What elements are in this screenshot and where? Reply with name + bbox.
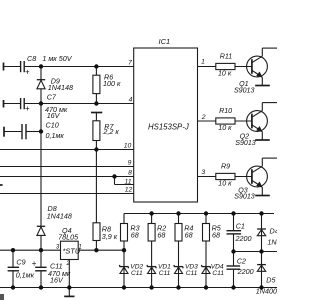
svg-text:7: 7	[128, 60, 132, 67]
svg-text:0,1мк: 0,1мк	[46, 131, 65, 140]
svg-text:1: 1	[78, 245, 81, 251]
svg-text:1 мк 50V: 1 мк 50V	[42, 54, 72, 63]
svg-text:+: +	[25, 104, 30, 113]
svg-text:C11: C11	[212, 270, 224, 277]
svg-text:100 к: 100 к	[103, 79, 121, 88]
svg-text:C11: C11	[159, 270, 171, 277]
svg-text:3: 3	[201, 169, 205, 176]
svg-text:1: 1	[201, 58, 205, 65]
svg-text:1N400: 1N400	[267, 237, 277, 246]
svg-text:10 к: 10 к	[218, 124, 232, 132]
svg-text:78L05: 78L05	[58, 232, 79, 241]
svg-text:1N4148: 1N4148	[47, 212, 72, 221]
svg-text:HS153SP-J: HS153SP-J	[148, 123, 189, 132]
svg-text:2200: 2200	[237, 267, 254, 276]
svg-text:68: 68	[212, 230, 220, 239]
svg-text:1N4148: 1N4148	[48, 83, 73, 92]
svg-text:10: 10	[124, 143, 132, 150]
svg-text:C1: C1	[236, 221, 245, 230]
svg-text:+: +	[25, 68, 30, 77]
svg-text:1N4007: 1N4007	[256, 286, 277, 295]
svg-text:3,9 к: 3,9 к	[102, 232, 118, 241]
svg-text:R11: R11	[220, 53, 233, 61]
svg-text:2200: 2200	[235, 234, 252, 243]
svg-text:10 к: 10 к	[218, 70, 232, 78]
svg-text:S9013: S9013	[234, 86, 255, 94]
svg-text:11: 11	[124, 178, 131, 185]
svg-text:2: 2	[66, 261, 71, 267]
svg-text:C8: C8	[27, 54, 36, 63]
svg-text:16V: 16V	[50, 275, 64, 284]
svg-text:C11: C11	[186, 270, 198, 277]
svg-text:S9013: S9013	[235, 139, 256, 147]
svg-text:68: 68	[157, 230, 165, 239]
svg-text:10 к: 10 к	[218, 180, 232, 188]
svg-text:C9: C9	[16, 258, 25, 267]
svg-text:68: 68	[185, 230, 193, 239]
svg-text:C2: C2	[237, 256, 246, 265]
svg-text:9: 9	[128, 160, 132, 167]
svg-text:2: 2	[201, 114, 206, 121]
svg-text:C11: C11	[131, 270, 143, 277]
svg-text:IC1: IC1	[159, 37, 171, 46]
svg-text:C10: C10	[46, 121, 59, 130]
svg-text:68: 68	[131, 230, 139, 239]
svg-text:16V: 16V	[47, 111, 61, 120]
svg-text:D4: D4	[270, 226, 278, 235]
svg-text:D5: D5	[266, 275, 276, 284]
svg-text:8: 8	[128, 170, 132, 177]
svg-text:4: 4	[129, 97, 133, 104]
svg-text:C7: C7	[47, 92, 57, 101]
svg-text:R9: R9	[221, 163, 230, 171]
svg-text:12: 12	[125, 187, 133, 194]
svg-text:+: +	[32, 259, 37, 268]
svg-text:R10: R10	[219, 107, 232, 115]
svg-text:0,1мк: 0,1мк	[16, 271, 35, 280]
svg-text:S9013: S9013	[234, 192, 255, 200]
svg-text:2,2 к: 2,2 к	[102, 127, 119, 136]
